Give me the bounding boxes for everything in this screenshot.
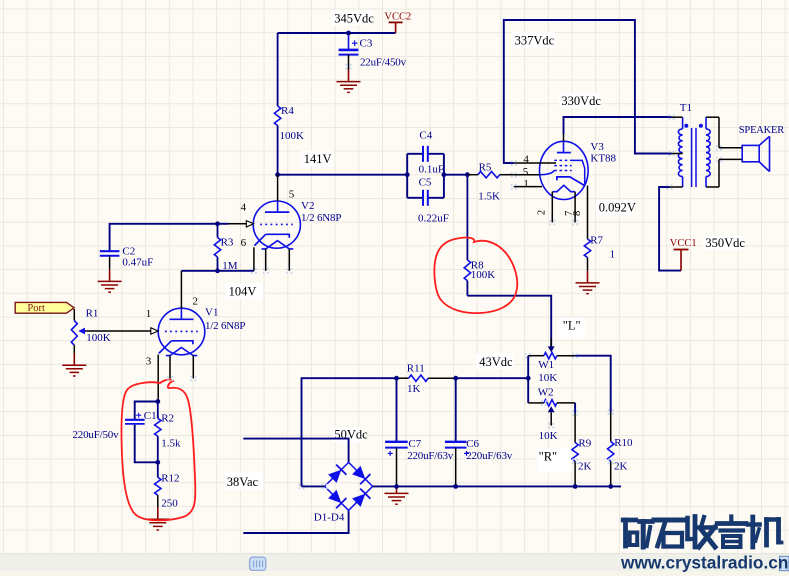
svg-text:VCC2: VCC2 <box>384 12 411 23</box>
net label 38Vac <box>224 473 263 490</box>
svg-text:R2: R2 <box>161 413 174 425</box>
svg-text:6: 6 <box>241 237 247 249</box>
svg-text:R5: R5 <box>479 161 492 173</box>
svg-text:2: 2 <box>193 296 199 308</box>
svg-text:1/2 6N8P: 1/2 6N8P <box>205 320 245 332</box>
svg-text:R10: R10 <box>614 437 633 449</box>
capacitor C5 <box>407 177 449 225</box>
ground below R7 <box>576 271 600 294</box>
net label 141V <box>301 151 334 167</box>
wire W2 right to R9 <box>574 403 576 413</box>
svg-text:22uF/450v: 22uF/450v <box>360 57 407 69</box>
junction rail R9 bottom <box>573 484 578 489</box>
svg-text:3: 3 <box>146 355 152 367</box>
svg-text:D1-D4: D1-D4 <box>314 512 345 524</box>
svg-text:104V: 104V <box>229 284 257 298</box>
svg-text:C1: C1 <box>144 410 157 422</box>
svg-text:R7: R7 <box>590 235 603 247</box>
wire 330Vdc plate to transformer <box>564 117 672 134</box>
svg-text:337Vdc: 337Vdc <box>515 34 555 48</box>
svg-text:220uF/63v: 220uF/63v <box>407 450 454 462</box>
resistor R11 <box>397 362 456 395</box>
junction R5/R8 node <box>465 172 470 177</box>
wire W1 left to W2 left <box>527 356 529 403</box>
UI scrollbar strip <box>0 554 789 571</box>
svg-text:C4: C4 <box>419 129 432 141</box>
capacitor C7 <box>385 378 454 486</box>
resistor R8 <box>464 175 495 296</box>
net label 330Vdc <box>559 93 602 108</box>
node 141V junction <box>275 172 280 177</box>
svg-text:5: 5 <box>523 166 529 178</box>
transformer T1 <box>670 102 720 187</box>
ground below R12 <box>146 507 170 530</box>
junction 43Vdc rail to W1/W2 <box>526 376 531 381</box>
resistor R3 <box>214 224 237 272</box>
junction V1 cathode top <box>155 399 160 404</box>
net label 50Vdc <box>332 427 368 442</box>
junction rail/C7 <box>394 376 399 381</box>
svg-text:1: 1 <box>523 178 529 190</box>
wire ground rail <box>397 485 622 487</box>
svg-text:V1: V1 <box>205 307 218 319</box>
svg-text:1K: 1K <box>407 383 421 395</box>
UI scrollbar thumb <box>250 557 266 570</box>
svg-text:R1: R1 <box>86 308 99 320</box>
net label 43Vdc <box>476 354 514 370</box>
ground below C3 <box>337 70 361 93</box>
svg-text:220uF/50v: 220uF/50v <box>73 429 120 441</box>
junction cap box right <box>442 172 447 177</box>
wire V1 plate to V2 cathode (104V node) <box>181 270 254 272</box>
net label 337Vdc <box>512 32 555 48</box>
svg-text:1.5k: 1.5k <box>161 438 181 450</box>
wire 43Vdc rail left <box>302 378 397 486</box>
wire C2 to V2 grid <box>110 224 229 251</box>
potentiometer W2 <box>528 387 575 443</box>
svg-text:R9: R9 <box>578 437 591 449</box>
ground below C2 <box>98 269 122 292</box>
junction cap box left <box>405 172 410 177</box>
svg-text:www.crystalradio.cn: www.crystalradio.cn <box>620 552 788 572</box>
capacitor C4 <box>407 129 444 175</box>
capacitor C3 <box>339 33 407 70</box>
svg-text:VCC1: VCC1 <box>670 238 697 249</box>
svg-text:220uF/63v: 220uF/63v <box>466 450 513 462</box>
junction R3 top <box>215 221 220 226</box>
wire bridge left corner to rail riser <box>302 485 325 487</box>
svg-text:V2: V2 <box>301 200 314 212</box>
net label 345Vdc <box>332 10 375 26</box>
annotation red circle around C1 R2 R12 <box>122 380 196 521</box>
svg-text:V3: V3 <box>590 141 604 153</box>
tube V2 1/2 6N8P <box>229 175 342 271</box>
wire 337Vdc B+ loop <box>504 20 672 163</box>
svg-text:10K: 10K <box>538 372 557 384</box>
net label "L" <box>559 317 585 338</box>
svg-text:W2: W2 <box>538 387 554 399</box>
wire 43Vdc rail right <box>456 377 529 379</box>
speaker SPEAKER <box>739 125 784 171</box>
svg-text:100K: 100K <box>471 269 496 281</box>
capacitor C1 branch <box>73 402 158 463</box>
svg-text:2K: 2K <box>614 460 628 472</box>
wire R8 to W1 wiper <box>467 296 551 347</box>
net label 104V <box>226 283 263 299</box>
wire bridge right corner to ground rail <box>373 485 397 487</box>
svg-text:KT88: KT88 <box>590 152 616 164</box>
capacitor C6 <box>445 378 513 486</box>
svg-text:R11: R11 <box>407 362 425 374</box>
ground at bridge output <box>385 486 409 504</box>
svg-text:R4: R4 <box>281 105 294 117</box>
wire 38Vac bottom stub <box>243 510 348 533</box>
junction rail R10 bottom <box>608 484 613 489</box>
resistor R12 <box>155 462 180 509</box>
wire port to R1 <box>73 309 75 321</box>
svg-text:Port: Port <box>27 303 45 314</box>
svg-text:"R": "R" <box>539 449 558 463</box>
svg-text:8: 8 <box>572 211 583 216</box>
bridge rectifier D1-D4 <box>314 462 373 523</box>
junction rail/C6 <box>453 376 458 381</box>
svg-text:2K: 2K <box>578 461 592 473</box>
svg-text:R12: R12 <box>161 472 179 484</box>
junction C1/R2 bottom <box>155 460 160 465</box>
wire 141V to coupling caps <box>278 174 408 176</box>
svg-text:330Vdc: 330Vdc <box>561 94 601 108</box>
svg-text:1/2 6N8P: 1/2 6N8P <box>301 212 341 224</box>
decorative hotspots <box>511 160 513 162</box>
ground below R1 <box>62 345 86 376</box>
svg-text:C3: C3 <box>360 38 373 50</box>
tube V3 KT88 <box>514 134 617 239</box>
svg-text:1: 1 <box>610 249 616 261</box>
svg-text:C2: C2 <box>122 245 135 257</box>
annotation red circle around R8 <box>434 238 517 314</box>
svg-text:1.5K: 1.5K <box>478 191 500 203</box>
svg-text:250: 250 <box>161 497 178 509</box>
net label "R" <box>537 448 572 472</box>
resistor R5 <box>467 161 513 202</box>
capacitor C2 <box>100 245 153 269</box>
potentiometer R1 <box>71 308 110 346</box>
svg-text:100K: 100K <box>280 130 305 142</box>
svg-text:4: 4 <box>523 154 529 166</box>
svg-text:100K: 100K <box>86 332 111 344</box>
wire 345Vdc rail <box>278 32 396 34</box>
potentiometer W1 <box>528 338 575 384</box>
junction C3/345V <box>346 31 351 36</box>
watermark logo text <box>623 517 781 548</box>
svg-text:0.47uF: 0.47uF <box>122 257 153 269</box>
svg-text:141V: 141V <box>304 152 332 166</box>
svg-text:C5: C5 <box>419 177 432 189</box>
svg-text:43Vdc: 43Vdc <box>479 355 513 369</box>
wire 38Vac top stub <box>243 439 348 463</box>
wire T1 bottom to VCC1 <box>659 187 681 271</box>
speaker leads <box>719 147 742 149</box>
power symbol VCC1 <box>670 238 697 270</box>
svg-text:0.22uF: 0.22uF <box>418 213 449 225</box>
svg-text:0.092V: 0.092V <box>599 201 636 215</box>
resistor R9 <box>572 437 592 486</box>
svg-text:T1: T1 <box>680 102 692 114</box>
wire cap box verticals <box>406 154 408 198</box>
resistor R7 <box>584 235 615 271</box>
wire W1 right to R10 <box>575 356 611 412</box>
UI corner button <box>780 556 789 570</box>
junction ground rail at C7 <box>394 484 399 489</box>
svg-text:C6: C6 <box>466 438 479 450</box>
tube V1 1/2 6N8P <box>85 271 245 402</box>
svg-text:2: 2 <box>537 210 548 215</box>
svg-text:W1: W1 <box>538 359 554 371</box>
junction R3 bottom / 104V node <box>215 268 220 273</box>
resistor R2 <box>155 402 181 463</box>
svg-text:SPEAKER: SPEAKER <box>739 125 784 136</box>
net label 350Vdc <box>703 235 746 250</box>
resistor R4 <box>274 33 304 175</box>
svg-text:R3: R3 <box>221 236 234 248</box>
svg-text:5: 5 <box>289 189 295 201</box>
port Port <box>15 302 74 314</box>
svg-text:38Vac: 38Vac <box>227 475 259 489</box>
svg-text:1: 1 <box>146 308 152 320</box>
svg-text:0.1uF: 0.1uF <box>419 164 444 176</box>
svg-text:C7: C7 <box>408 438 421 450</box>
junction rail C6 bottom <box>453 484 458 489</box>
svg-text:345Vdc: 345Vdc <box>334 11 374 25</box>
power symbol VCC2 <box>384 12 411 34</box>
svg-text:4: 4 <box>241 202 247 214</box>
resistor R10 <box>608 437 634 486</box>
svg-text:"L": "L" <box>563 319 581 333</box>
svg-text:10K: 10K <box>539 430 558 442</box>
svg-text:350Vdc: 350Vdc <box>705 236 745 250</box>
net label 0.092V <box>596 200 636 215</box>
